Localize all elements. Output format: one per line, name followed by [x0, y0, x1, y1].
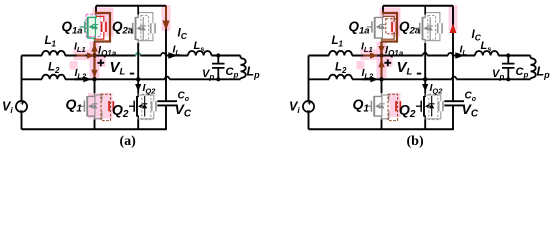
current IL2	[75, 78, 84, 80]
inductor L1	[42, 51, 65, 56]
transistor Q1 body diode	[381, 96, 383, 117]
transistor Q2a gate bar	[132, 23, 134, 34]
transistor Q2 channel bar	[423, 96, 425, 117]
wire top rail	[96, 5, 166, 7]
transistor Q1 gate bar	[83, 101, 85, 112]
transistor Q2a channel bar	[422, 17, 424, 40]
svg-text:IL: IL	[173, 43, 181, 57]
source Vi	[16, 101, 27, 112]
svg-text:Cp: Cp	[516, 66, 529, 80]
capacitor Co	[444, 100, 464, 102]
wire branch2 mid	[352, 78, 452, 80]
node C dot	[423, 77, 427, 81]
current IQ1a wire	[380, 42, 382, 56]
transistor Q2a source lead	[136, 40, 139, 43]
wire branch1 mid	[352, 55, 423, 57]
wire output leg	[452, 6, 454, 130]
transistor Q2a gate lead	[415, 27, 420, 29]
current IL1	[77, 55, 86, 57]
Q1a conduction path	[95, 12, 111, 42]
transistor Q2 gate bar	[133, 101, 135, 112]
Q1a inner tint	[86, 15, 101, 36]
inductor L2	[329, 75, 352, 80]
transistor Q2 gate lead	[129, 105, 134, 107]
wire output leg	[165, 6, 167, 130]
hop bump branch2 over output leg	[452, 77, 457, 80]
node A dot	[379, 53, 383, 57]
highlight band IC	[449, 5, 458, 31]
node A dot	[92, 53, 96, 57]
highlight band IC	[162, 5, 171, 31]
transistor Q1 gate bar	[370, 101, 372, 112]
svg-text:IC: IC	[472, 29, 482, 43]
inductor Lp	[530, 56, 532, 59]
current IL	[168, 52, 178, 58]
Q2 drain wire + IQ2 arrow	[424, 79, 426, 93]
wire branch1 right	[427, 55, 448, 57]
Q1 snubber dashed outline	[101, 94, 111, 120]
Q1 drain wire	[381, 79, 383, 93]
wire branch2 left	[309, 78, 330, 80]
transistor Q2 body diode	[144, 96, 146, 117]
capacitor Cp	[502, 64, 515, 68]
wire left rail	[21, 56, 23, 130]
Q2a source wire	[424, 43, 426, 79]
Q2a drain wire	[137, 6, 139, 15]
Q1 source wire	[381, 120, 383, 130]
node C dot	[136, 77, 140, 81]
wire branch2 to tank	[456, 78, 530, 80]
svg-text:IQ1a: IQ1a	[385, 45, 404, 59]
current IL	[455, 52, 465, 58]
Q1 snubber capacitor	[108, 101, 110, 111]
svg-text:Lp: Lp	[537, 65, 550, 81]
wire branch1 left	[22, 55, 43, 57]
svg-text:Q1: Q1	[66, 96, 83, 115]
svg-text:Q2a: Q2a	[112, 19, 133, 37]
transistor Q1a source lead	[88, 38, 95, 41]
wire left rail	[308, 56, 310, 130]
wire bottom rail	[22, 128, 167, 130]
svg-text:(b): (b)	[407, 134, 424, 149]
wire bottom rail	[309, 128, 454, 130]
Q2 drain wire + IQ2 arrow	[137, 79, 139, 93]
svg-text:VC: VC	[462, 101, 479, 120]
svg-text:Vp: Vp	[492, 68, 504, 82]
Q2 parallel capacitor	[138, 95, 154, 101]
highlight band Q1	[88, 93, 113, 119]
transistor Q1a body diode	[94, 17, 96, 39]
current IC (down)	[165, 6, 167, 20]
Q2 dashed outline	[142, 94, 151, 119]
transistor Q1a drain lead	[88, 14, 96, 17]
current IQ1a wire	[93, 42, 95, 56]
wire Cp leg	[507, 56, 509, 80]
transistor Q1a gate bar	[84, 21, 86, 32]
current IQ1a arrow (up)	[91, 44, 97, 52]
transistor Q2 drain lead	[137, 93, 138, 96]
transistor Q1 gate lead	[79, 105, 84, 107]
highlight band Q1 capacitor	[390, 93, 401, 117]
transistor Q2a gate lead	[128, 27, 133, 29]
transistor Q1 drain lead	[374, 93, 381, 96]
Q1a parallel capacitor	[383, 16, 394, 22]
highlight band IL1	[361, 50, 385, 61]
tank junction dots	[216, 53, 220, 57]
transistor Q1 source lead	[87, 116, 94, 119]
Q1 inner loop	[95, 95, 102, 101]
Q1 snubber capacitor	[395, 101, 397, 111]
wire branch1 right	[140, 55, 161, 57]
svg-text:IL2: IL2	[362, 67, 375, 81]
inductor L1	[329, 51, 352, 56]
plus sign	[384, 59, 391, 66]
transistor Q2a body diode	[429, 17, 431, 40]
transistor Q1a channel bar	[374, 17, 376, 39]
transistor Q1 drain lead	[87, 93, 94, 96]
svg-text:L2: L2	[335, 61, 347, 75]
hop bump over output leg	[448, 53, 453, 56]
transistor Q2 source lead	[424, 116, 425, 119]
transistor Q1 source arrow	[88, 104, 92, 109]
node B dot	[379, 77, 383, 81]
inductor L2	[42, 75, 65, 80]
highlight band Q1a top path	[93, 8, 114, 17]
transistor Q1 gate lead	[366, 105, 371, 107]
Q1a conduction path	[382, 12, 398, 42]
transistor Q2 gate bar	[420, 101, 422, 112]
wire branch1 to Ls	[453, 55, 475, 57]
Q2a dashed outline	[428, 16, 436, 41]
Q2 source wire	[137, 120, 139, 130]
transistor Q2 source arrow	[425, 104, 429, 109]
plus sign	[97, 59, 104, 66]
svg-text:IQ2: IQ2	[143, 82, 157, 96]
svg-text:Ls: Ls	[194, 40, 205, 54]
link wire node A to node B	[380, 56, 382, 80]
current IC (up)	[450, 24, 457, 34]
svg-text:IQ1a: IQ1a	[98, 45, 117, 59]
transistor Q1a gate lead	[80, 26, 85, 28]
link wire node A to node B	[93, 56, 95, 80]
highlight band IL1	[74, 50, 98, 61]
transistor Q1a gate lead	[367, 26, 372, 28]
current IL2	[362, 78, 371, 80]
transistor Q2 source lead	[137, 116, 138, 119]
transistor Q1a source arrow	[376, 25, 380, 30]
transistor Q1a source lead	[375, 38, 382, 41]
node B dot	[92, 77, 96, 81]
Q1 snubber dashed outline	[388, 94, 398, 120]
svg-text:Cp: Cp	[226, 66, 239, 80]
Q2a parallel capacitor	[425, 13, 440, 24]
transistor Q2a drain lead	[423, 14, 426, 17]
svg-text:L1: L1	[45, 35, 57, 49]
svg-text:IL1: IL1	[361, 40, 373, 54]
transistor Q2a channel bar	[135, 17, 137, 40]
svg-text:Q2: Q2	[112, 102, 129, 121]
Q1a parallel capacitor	[96, 16, 104, 22]
current IQ1a arrow (down)	[378, 46, 384, 54]
svg-text:VL: VL	[397, 59, 413, 78]
Q1a dashed outline	[386, 19, 397, 34]
svg-text:VC: VC	[175, 101, 192, 120]
hop bump over output leg	[161, 53, 166, 56]
transistor Q2 body diode	[431, 96, 433, 117]
hop bump over Q2a leg	[136, 53, 141, 56]
wire branch1 to Lp	[498, 55, 530, 57]
transistor Q2 gate lead	[416, 105, 421, 107]
wire Cp leg	[217, 56, 219, 80]
highlight band Q1a top path	[380, 8, 401, 17]
Q1 source wire	[94, 120, 96, 130]
transistor Q2a drain lead	[136, 14, 139, 17]
transistor Q2 source arrow	[138, 104, 142, 109]
wire branch2 mid	[65, 78, 165, 80]
minus sign	[417, 73, 421, 75]
source Vi	[303, 101, 314, 112]
link arrow (down)	[91, 70, 97, 78]
highlight band IL2	[357, 61, 365, 70]
Q1a top corner wire	[382, 6, 384, 12]
svg-text:Q1a: Q1a	[349, 19, 370, 37]
wire branch1 mid	[65, 55, 136, 57]
hop bump branch2 over output leg	[165, 77, 170, 80]
svg-text:IL2: IL2	[75, 67, 88, 81]
transistor Q1a body diode	[381, 17, 383, 39]
transistor Q1a drain lead	[375, 14, 383, 17]
Q1 inner loop	[382, 95, 389, 101]
transistor Q2a body diode	[142, 17, 144, 40]
transistor Q2a source arrow	[137, 26, 141, 31]
svg-text:L1: L1	[332, 35, 344, 49]
Q2a source wire	[137, 43, 139, 79]
transistor Q1 source arrow	[375, 104, 379, 109]
transistor Q1a gate bar	[371, 21, 373, 32]
svg-text:Lp: Lp	[247, 65, 261, 81]
svg-text:Vi: Vi	[289, 100, 300, 116]
transistor Q1 channel bar	[86, 96, 88, 117]
transistor Q2a source arrow	[424, 26, 428, 31]
highlight band IQ1a link	[90, 42, 100, 79]
Q2 parallel capacitor	[425, 95, 441, 101]
svg-text:IQ2: IQ2	[430, 82, 444, 96]
svg-text:VL: VL	[110, 59, 126, 78]
transistor Q1 source lead	[374, 116, 381, 119]
svg-text:IL1: IL1	[74, 40, 86, 54]
inductor Ls	[188, 51, 211, 56]
svg-text:L2: L2	[48, 61, 60, 75]
svg-text:IC: IC	[178, 27, 188, 41]
Q2a dashed outline	[141, 16, 149, 41]
hop bump over Q2a leg	[423, 53, 428, 56]
wire branch1 left	[309, 55, 330, 57]
transistor Q2a source lead	[423, 40, 426, 43]
highlight band IL2	[70, 61, 78, 70]
transistor Q1a source arrow	[89, 25, 93, 30]
svg-text:Q1: Q1	[353, 96, 370, 115]
svg-text:Q2: Q2	[399, 102, 416, 121]
inductor Ls	[475, 51, 498, 56]
link arrow (up)	[378, 59, 384, 67]
inductor Lp	[240, 56, 242, 59]
capacitor Cp	[212, 64, 225, 68]
minus sign	[130, 73, 134, 75]
wire branch1 to Lp	[211, 55, 240, 57]
svg-text:IL: IL	[460, 43, 468, 57]
Q1a top corner wire	[95, 6, 97, 12]
wire branch2 to tank	[169, 78, 240, 80]
transistor Q1a channel bar	[87, 17, 89, 39]
svg-text:Vp: Vp	[202, 68, 214, 82]
transistor Q1 channel bar	[373, 96, 375, 117]
wire branch2 left	[22, 78, 43, 80]
svg-text:Vi: Vi	[2, 100, 13, 116]
wire branch1 to Ls	[166, 55, 188, 57]
transistor Q2 channel bar	[136, 96, 138, 117]
transistor Q2a gate bar	[419, 23, 421, 34]
transistor Q1 body diode	[94, 96, 96, 117]
Q2 source wire	[424, 120, 426, 130]
Q1a dashed outline	[86, 14, 101, 36]
Q1 drain wire	[94, 79, 96, 93]
svg-text:Q2a: Q2a	[399, 19, 420, 37]
Q2 dashed outline	[429, 94, 438, 119]
wire top rail	[383, 5, 453, 7]
capacitor Co	[157, 100, 177, 102]
svg-text:(a): (a)	[120, 134, 137, 149]
Q2a parallel capacitor	[138, 13, 153, 24]
transistor Q2 drain lead	[424, 93, 425, 96]
highlight band IQ1a link	[377, 42, 387, 79]
current IL1	[364, 55, 373, 57]
svg-text:Q1a: Q1a	[62, 19, 83, 37]
tank junction dots	[506, 53, 510, 57]
svg-text:Ls: Ls	[481, 40, 492, 54]
Q2a drain wire	[424, 6, 426, 15]
